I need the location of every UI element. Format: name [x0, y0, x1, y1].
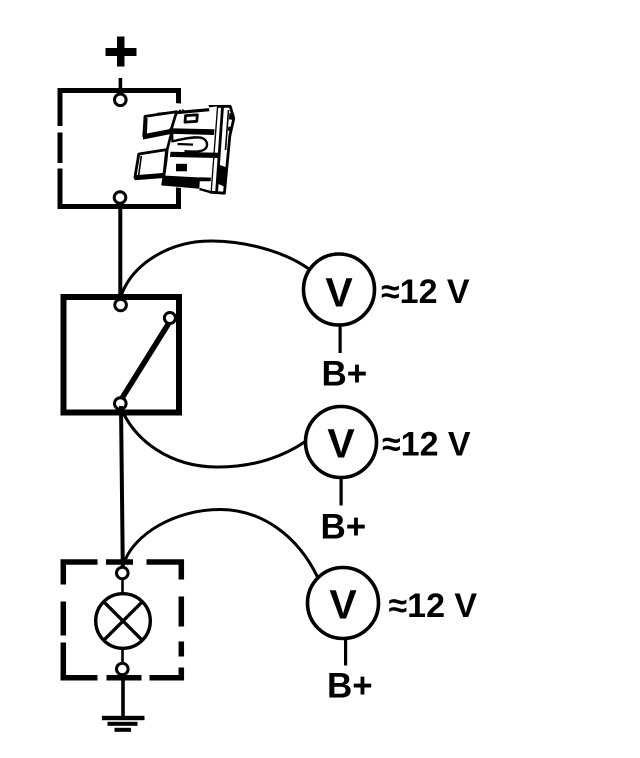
svg-text:B+: B+: [322, 355, 368, 394]
svg-text:≈12 V: ≈12 V: [389, 587, 478, 625]
fuse element wire: [171, 134, 173, 142]
voltmeter V3: [308, 568, 379, 639]
svg-text:≈12 V: ≈12 V: [382, 426, 471, 464]
voltmeter V2 reading label: [382, 426, 471, 464]
fuse imprint mark: [176, 164, 187, 172]
fuse box bottom terminal: [114, 192, 126, 204]
fuse cap shadow: [217, 165, 226, 187]
wire terminal to lamp: [121, 579, 124, 594]
svg-text:B+: B+: [321, 508, 367, 547]
lamp box bottom terminal: [117, 663, 129, 675]
fuse body upper dark band: [169, 128, 215, 135]
switch box: [64, 297, 180, 413]
fuse body front face: [158, 106, 217, 192]
ground symbol: [102, 716, 145, 732]
switch box bottom terminal: [115, 398, 127, 410]
node B+ at voltmeter V2: [321, 508, 367, 547]
switch box top terminal: [115, 299, 127, 311]
lamp box top terminal: [117, 567, 129, 579]
test lead wire lamp top to voltmeter V3: [124, 510, 318, 579]
fuse body top edge: [157, 110, 209, 115]
lamp box (dashed consumer box): [61, 560, 185, 681]
fuse box S (dashed supply box): [58, 88, 182, 209]
wire from plus to fuse box: [119, 78, 123, 90]
lamp E (circle with cross): [96, 594, 151, 649]
switch lever: [122, 322, 170, 399]
wire lamp to bottom terminal: [121, 648, 124, 664]
wire lamp box to ground: [121, 674, 125, 717]
battery plus terminal symbol: [106, 37, 137, 67]
node B+ at voltmeter V3: [327, 667, 373, 706]
fuse top cover face: [174, 103, 209, 114]
svg-text:B+: B+: [327, 667, 373, 706]
wire switch box to lamp box: [121, 406, 123, 567]
node B+ at voltmeter V1: [322, 355, 368, 394]
svg-text:V: V: [325, 270, 353, 316]
svg-text:V: V: [329, 582, 357, 628]
voltmeter V1: [304, 254, 375, 325]
fuse body lower dark band: [170, 152, 219, 158]
svg-text:≈12 V: ≈12 V: [381, 273, 470, 311]
fuse upper blade terminal: [144, 112, 177, 136]
test lead wire switch top to voltmeter V1: [121, 241, 309, 296]
fuse body left edge: [163, 131, 173, 186]
voltmeter V3 lead stub: [344, 639, 347, 666]
blade fuse illustration: [135, 103, 235, 193]
voltmeter V2: [306, 407, 377, 478]
fuse body bottom shadow: [162, 176, 200, 189]
fuse rating window detail: [185, 115, 197, 122]
wire fuse box to switch box: [118, 204, 122, 299]
voltmeter V1 lead stub: [339, 325, 342, 353]
voltmeter V3 reading label: [389, 587, 478, 625]
voltmeter V2 lead stub: [340, 478, 343, 506]
fuse cap edge marks: [229, 113, 235, 120]
test lead wire switch bottom to voltmeter V2: [121, 408, 306, 467]
voltmeter V1 reading label: [381, 273, 470, 311]
fuse lower blade terminal: [135, 150, 167, 178]
fuse end cap (right): [210, 106, 233, 193]
svg-text:V: V: [327, 421, 355, 467]
fuse box top terminal: [115, 94, 127, 106]
switch pivot contact: [164, 313, 175, 324]
